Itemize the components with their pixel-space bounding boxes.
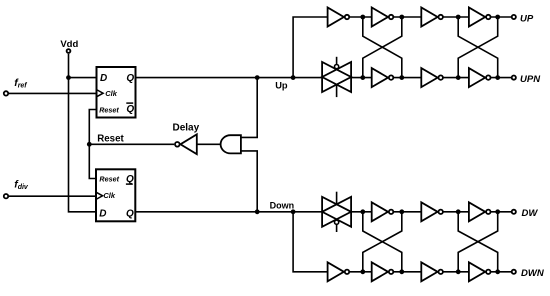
terminal UP bbox=[512, 15, 516, 19]
wire AND input A bbox=[241, 78, 257, 138]
svg-text:Up: Up bbox=[275, 81, 288, 91]
terminal DW bbox=[512, 210, 516, 214]
inverter U15 bbox=[328, 262, 350, 281]
terminal DWN bbox=[512, 270, 516, 274]
svg-text:Q: Q bbox=[126, 209, 134, 220]
wire delay to AND bbox=[197, 143, 222, 145]
node n8 bbox=[495, 75, 500, 80]
inverter U14 bbox=[469, 202, 491, 221]
node n11 bbox=[456, 209, 461, 214]
inverter U9 bbox=[372, 68, 394, 87]
wire Up to UP row bbox=[293, 17, 511, 78]
svg-text:Reset: Reset bbox=[99, 105, 119, 114]
wire UPN row bbox=[351, 77, 512, 79]
inverter U18 bbox=[469, 262, 491, 281]
terminal UPN bbox=[512, 76, 516, 80]
wire cross-couple X1a bbox=[363, 17, 402, 78]
svg-text:UP: UP bbox=[520, 14, 534, 25]
inverter U3 Delay bbox=[175, 134, 197, 154]
node n2 bbox=[399, 15, 404, 20]
wire cross-couple X4a bbox=[458, 212, 498, 272]
node Down-AND junction bbox=[255, 209, 260, 214]
flip-flop U1 bbox=[97, 67, 136, 118]
inverter U17 bbox=[421, 262, 443, 281]
node n10 bbox=[399, 209, 404, 214]
and-gate U4 bbox=[221, 135, 241, 153]
wire DW row bbox=[351, 211, 512, 213]
transmission gate TG1 bbox=[322, 57, 351, 97]
node n9 bbox=[360, 209, 365, 214]
wire Vdd rail bbox=[69, 54, 97, 212]
node Up-AND junction bbox=[255, 75, 260, 80]
terminal fref bbox=[4, 91, 8, 95]
svg-text:Down: Down bbox=[270, 200, 295, 210]
node Down branch junction bbox=[291, 209, 296, 214]
svg-text:D: D bbox=[99, 209, 106, 220]
svg-text:Clk: Clk bbox=[105, 89, 118, 98]
inverter U11 bbox=[469, 68, 491, 87]
wire Reset line bbox=[89, 143, 174, 145]
node Reset junction bbox=[87, 142, 92, 147]
node n6 bbox=[399, 75, 404, 80]
node n4 bbox=[495, 15, 500, 20]
wire cross-couple X1b bbox=[363, 17, 402, 78]
wire Up line bbox=[136, 77, 323, 79]
wire reset to U1/U2 bbox=[89, 110, 96, 179]
node n13 bbox=[360, 269, 365, 274]
node n5 bbox=[360, 75, 365, 80]
inverter U10 bbox=[421, 68, 443, 87]
wire cross-couple X3b bbox=[363, 212, 402, 272]
node n1 bbox=[360, 15, 365, 20]
svg-text:Q: Q bbox=[126, 104, 134, 115]
svg-text:Vdd: Vdd bbox=[60, 39, 78, 50]
inverter U13 bbox=[421, 202, 443, 221]
svg-text:UPN: UPN bbox=[520, 74, 541, 85]
wire Down line bbox=[135, 211, 322, 213]
node Vdd-D junction bbox=[66, 75, 71, 80]
node n7 bbox=[456, 75, 461, 80]
inverter U16 bbox=[372, 262, 394, 281]
transmission gate TG2 bbox=[322, 192, 351, 232]
wire cross-couple X2b bbox=[458, 17, 498, 78]
inverter U12 bbox=[372, 202, 394, 221]
svg-text:D: D bbox=[100, 73, 107, 84]
node n12 bbox=[495, 209, 500, 214]
inverter U7 bbox=[421, 8, 443, 27]
node Up branch junction bbox=[291, 75, 296, 80]
Vdd terminal bbox=[67, 49, 71, 53]
wire Down to DWN row bbox=[293, 212, 511, 272]
wire Vdd to D of U1 bbox=[69, 77, 97, 79]
svg-text:Reset: Reset bbox=[97, 134, 124, 145]
inverter U6 bbox=[372, 8, 394, 27]
wire fdiv to Clk U2 bbox=[9, 195, 96, 197]
svg-text:Reset: Reset bbox=[99, 175, 119, 184]
wire AND input B bbox=[241, 151, 257, 212]
terminal fdiv bbox=[4, 194, 8, 198]
node n16 bbox=[495, 269, 500, 274]
svg-text:DW: DW bbox=[522, 208, 539, 219]
node n3 bbox=[456, 15, 461, 20]
flip-flop U2 bbox=[96, 169, 135, 221]
svg-text:DWN: DWN bbox=[521, 268, 545, 279]
wire cross-couple X3a bbox=[363, 212, 402, 272]
inverter U8 bbox=[469, 8, 491, 27]
svg-text:Clk: Clk bbox=[103, 191, 116, 200]
inverter U5 bbox=[328, 8, 350, 27]
wire cross-couple X4b bbox=[458, 212, 498, 272]
svg-text:Delay: Delay bbox=[173, 123, 200, 134]
wire cross-couple X2a bbox=[458, 17, 498, 78]
wire fref to Clk U1 bbox=[9, 92, 97, 94]
svg-text:Q: Q bbox=[126, 73, 134, 84]
node n14 bbox=[399, 269, 404, 274]
node n15 bbox=[456, 269, 461, 274]
